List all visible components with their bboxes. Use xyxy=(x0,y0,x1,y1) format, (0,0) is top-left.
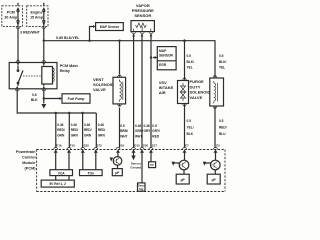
svg-text:0.5: 0.5 xyxy=(219,119,224,123)
svg-text:0.5: 0.5 xyxy=(120,124,125,128)
svg-text:0.46: 0.46 xyxy=(98,123,104,127)
svg-text:0.5: 0.5 xyxy=(187,54,192,58)
svg-text:VALVE: VALVE xyxy=(190,95,203,100)
svg-text:GRN: GRN xyxy=(98,133,106,137)
svg-text:RED/: RED/ xyxy=(57,128,65,132)
svg-text:0.5: 0.5 xyxy=(152,124,157,128)
svg-text:BLK/: BLK/ xyxy=(219,60,227,64)
svg-text:PCM Main: PCM Main xyxy=(60,64,79,68)
svg-text:SENSOR: SENSOR xyxy=(134,13,151,18)
svg-text:BLK: BLK xyxy=(187,132,194,136)
svg-text:Relay: Relay xyxy=(60,69,71,73)
svg-text:YEL: YEL xyxy=(187,66,193,70)
svg-text:PCM: PCM xyxy=(7,11,15,15)
svg-text:RED: RED xyxy=(152,134,159,138)
svg-text:0.8: 0.8 xyxy=(32,93,37,97)
svg-text:E7: E7 xyxy=(185,144,189,148)
svg-text:BRN/: BRN/ xyxy=(120,129,128,133)
svg-text:SOLENOID: SOLENOID xyxy=(190,90,211,95)
svg-text:BLK: BLK xyxy=(31,98,38,102)
svg-text:E5: E5 xyxy=(216,144,220,148)
svg-text:0.46: 0.46 xyxy=(135,124,141,128)
svg-text:WHT: WHT xyxy=(135,134,142,138)
svg-text:GRN: GRN xyxy=(71,133,79,137)
svg-text:WHT: WHT xyxy=(120,134,127,138)
svg-text:Engine: Engine xyxy=(31,11,43,15)
svg-text:VALVE: VALVE xyxy=(93,87,106,92)
svg-text:0.46: 0.46 xyxy=(84,123,90,127)
svg-text:GRY: GRY xyxy=(144,129,152,133)
svg-text:DUTY: DUTY xyxy=(190,84,201,89)
svg-text:S72: S72 xyxy=(97,144,103,148)
svg-text:0.46: 0.46 xyxy=(71,123,77,127)
svg-text:GRN: GRN xyxy=(57,133,65,137)
svg-text:BLU: BLU xyxy=(219,132,226,136)
svg-text:PURGE: PURGE xyxy=(190,79,205,84)
svg-text:0.5: 0.5 xyxy=(187,119,192,123)
svg-text:RED/: RED/ xyxy=(84,128,92,132)
svg-text:BLK/: BLK/ xyxy=(187,60,195,64)
svg-text:S19: S19 xyxy=(119,144,125,148)
svg-text:GRY/: GRY/ xyxy=(152,129,160,133)
svg-text:YEL: YEL xyxy=(219,66,225,70)
svg-text:S32: S32 xyxy=(84,144,90,148)
svg-text:TOn: TOn xyxy=(88,171,95,175)
svg-text:Fuel Pump: Fuel Pump xyxy=(68,97,85,101)
svg-text:RED/: RED/ xyxy=(71,128,79,132)
svg-text:Module: Module xyxy=(22,161,35,165)
svg-text:15 Amp: 15 Amp xyxy=(30,16,44,20)
svg-text:RED/: RED/ xyxy=(219,126,227,130)
svg-text:Control: Control xyxy=(22,156,36,160)
svg-text:F15: F15 xyxy=(70,144,76,148)
svg-text:5V Ref 1, 2: 5V Ref 1, 2 xyxy=(49,182,66,186)
svg-text:MAP: MAP xyxy=(159,49,167,53)
svg-text:5V: 5V xyxy=(150,163,154,167)
svg-text:S17: S17 xyxy=(152,144,158,148)
svg-text:0.46: 0.46 xyxy=(144,124,150,128)
svg-text:Sig: Sig xyxy=(139,187,144,191)
svg-text:(PCM): (PCM) xyxy=(25,167,37,171)
svg-text:MAF Sensor: MAF Sensor xyxy=(100,25,120,29)
svg-text:GRN: GRN xyxy=(84,133,92,137)
svg-text:0.5: 0.5 xyxy=(219,54,224,58)
svg-text:0.85 BLK/YEL: 0.85 BLK/YEL xyxy=(56,36,80,40)
svg-text:30 Amp: 30 Amp xyxy=(4,16,18,20)
svg-text:YEL/: YEL/ xyxy=(187,126,194,130)
svg-text:AIR: AIR xyxy=(159,90,166,95)
svg-text:3 RED/WHT: 3 RED/WHT xyxy=(20,31,41,35)
svg-text:0.46: 0.46 xyxy=(57,123,63,127)
svg-text:EGR: EGR xyxy=(159,63,167,67)
svg-text:GRN/: GRN/ xyxy=(135,129,143,133)
svg-text:SENSOR: SENSOR xyxy=(159,53,174,57)
svg-text:VCA: VCA xyxy=(58,171,66,175)
svg-text:Ground: Ground xyxy=(130,165,141,169)
svg-text:S30: S30 xyxy=(143,144,149,148)
svg-text:RED/: RED/ xyxy=(98,128,106,132)
svg-text:F16: F16 xyxy=(56,144,62,148)
svg-text:D15: D15 xyxy=(134,144,140,148)
svg-text:Powertrain: Powertrain xyxy=(16,150,36,154)
